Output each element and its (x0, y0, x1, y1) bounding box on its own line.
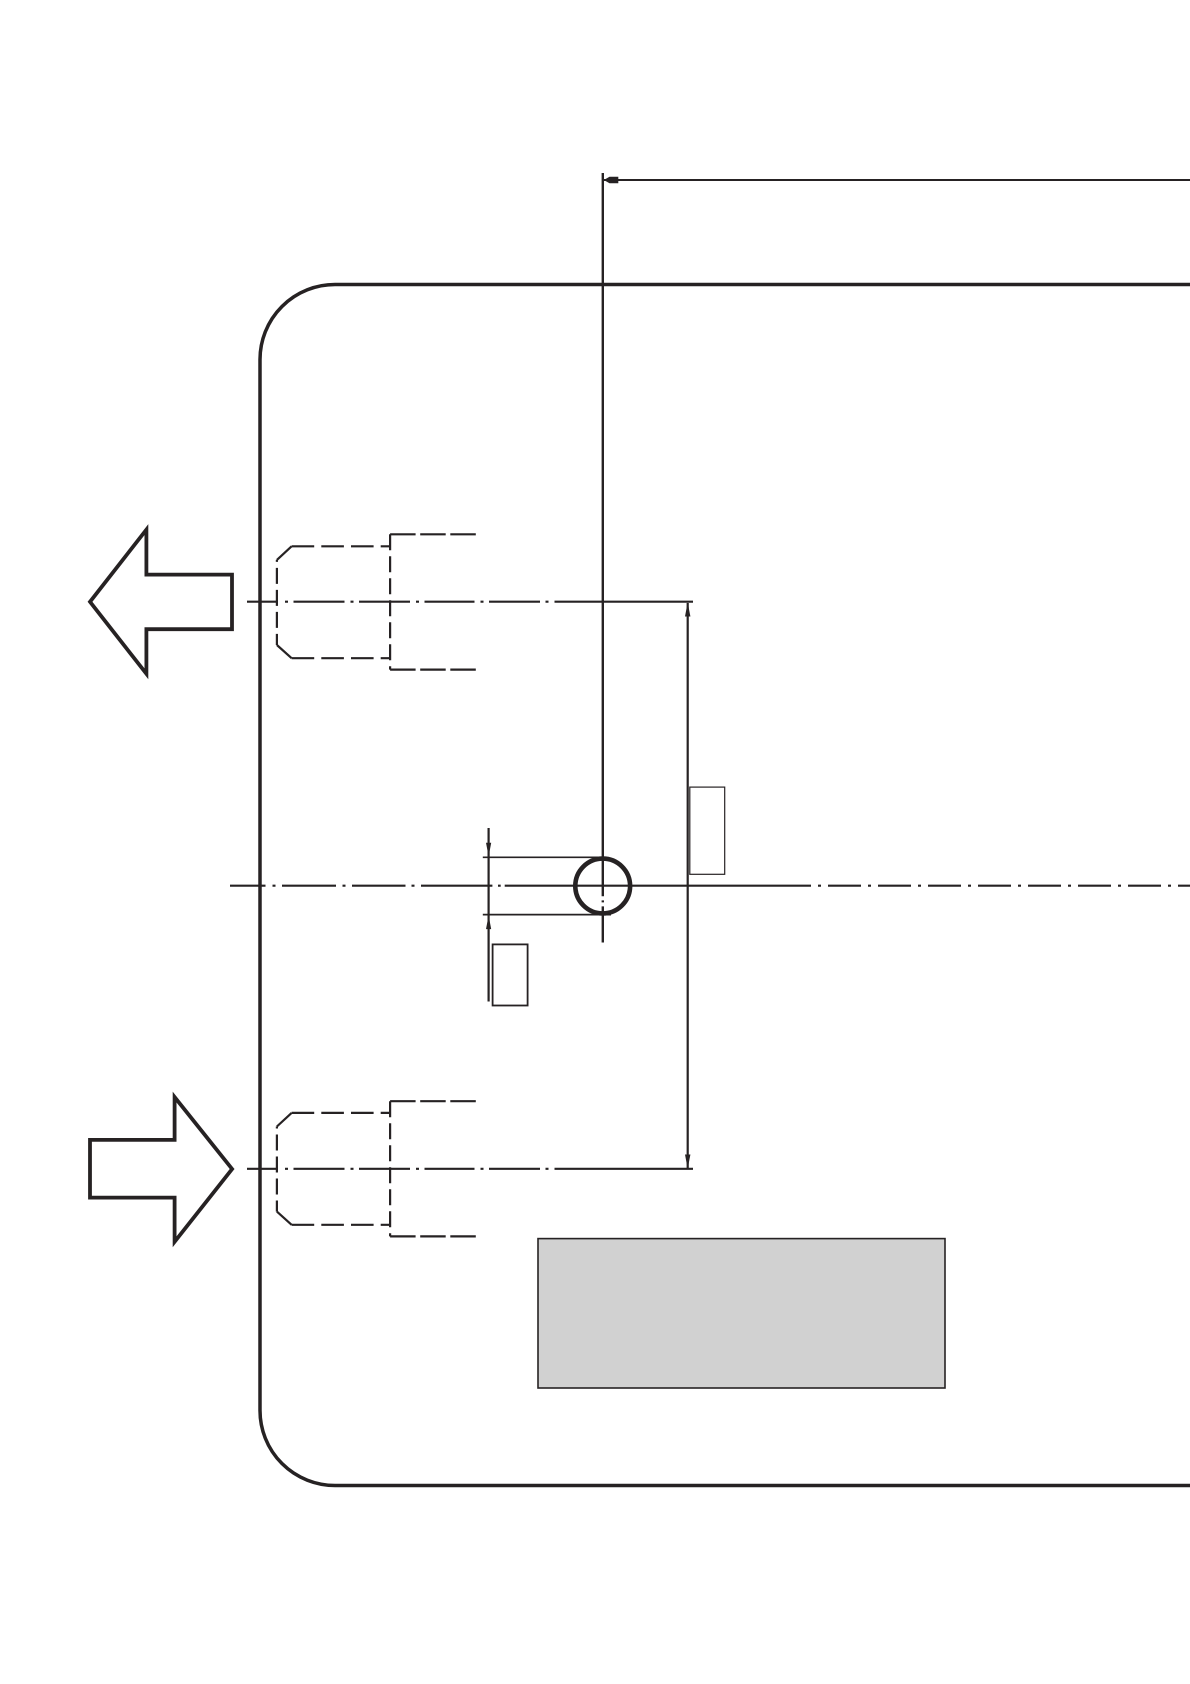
part outline (rounded enclosure, clipped at right edge) (260, 285, 1190, 1486)
left direction arrow (90, 530, 232, 674)
top connector centerline (247, 601, 693, 603)
diameter dimension lower arrowhead (points up) (486, 915, 491, 929)
label box below diameter dimension (493, 944, 528, 1005)
right direction arrow (90, 1097, 232, 1242)
label box beside vertical dimension (690, 787, 725, 874)
bottom connector hidden outline (right body) (390, 1101, 476, 1236)
vertical dimension bottom arrowhead (points down) (685, 1155, 690, 1169)
top connector hidden outline (right body) (390, 534, 476, 669)
hole diameter extension line top (483, 856, 607, 858)
hole diameter extension line bottom (483, 914, 611, 916)
top connector hidden outline (left body with chamfers) (277, 546, 390, 658)
main horizontal centerline (230, 885, 1190, 887)
gray plate rectangle (538, 1239, 945, 1388)
vertical dimension top arrowhead (points up) (685, 602, 690, 616)
diameter dimension upper arrowhead (points down) (486, 843, 491, 857)
hole circle (575, 859, 630, 914)
top horizontal dimension line (604, 179, 1190, 181)
bottom connector hidden outline (left body with chamfers) (277, 1113, 390, 1225)
vertical dimension line between connector centerlines (687, 603, 689, 1169)
top dimension arrowhead (points left) (604, 177, 619, 183)
bottom connector centerline (247, 1168, 693, 1170)
hole diameter dimension line (488, 828, 490, 1002)
vertical extension line through hole center (602, 173, 604, 943)
